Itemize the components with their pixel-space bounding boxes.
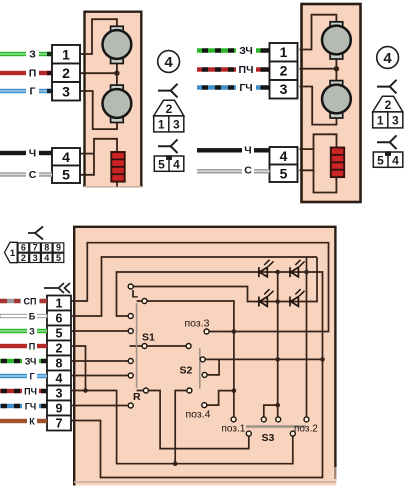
svg-text:1: 1 [280,44,288,60]
svg-text:3: 3 [280,81,288,97]
svg-text:СП: СП [24,296,37,306]
svg-text:3: 3 [56,387,63,401]
svg-text:П: П [29,68,37,80]
svg-text:3: 3 [33,253,38,263]
svg-text:П: П [29,342,35,352]
svg-text:ГЧ: ГЧ [25,402,36,412]
svg-text:R: R [133,391,141,403]
svg-text:S2: S2 [180,365,193,377]
svg-text:4: 4 [44,253,49,263]
svg-text:L: L [132,289,139,301]
svg-text:Ч: Ч [244,145,251,157]
svg-text:6: 6 [21,243,26,253]
svg-text:7: 7 [33,243,38,253]
svg-text:поз.1: поз.1 [222,424,246,435]
svg-text:2: 2 [56,342,63,356]
svg-text:S1: S1 [142,332,155,344]
svg-text:К: К [29,417,35,427]
svg-text:ГЧ: ГЧ [239,82,252,94]
svg-text:1: 1 [56,296,63,310]
svg-text:9: 9 [56,402,63,416]
svg-text:поз.4: поз.4 [186,409,211,421]
svg-text:поз.2: поз.2 [294,424,318,435]
svg-text:Г: Г [30,86,36,98]
svg-text:8: 8 [56,357,63,371]
svg-text:Г: Г [29,372,34,382]
svg-text:8: 8 [44,243,49,253]
svg-text:С: С [244,165,252,177]
svg-text:5: 5 [56,327,63,341]
svg-text:5: 5 [280,165,288,181]
svg-text:2: 2 [62,65,70,81]
svg-text:ПЧ: ПЧ [239,64,254,76]
svg-text:1: 1 [62,46,70,62]
svg-text:ЗЧ: ЗЧ [239,45,253,57]
svg-text:ПЧ: ПЧ [24,387,37,397]
svg-text:С: С [29,169,37,181]
svg-text:ЗЧ: ЗЧ [25,357,37,367]
svg-text:З: З [29,49,36,61]
svg-text:4: 4 [62,149,70,165]
svg-text:9: 9 [56,243,61,253]
svg-text:S3: S3 [262,432,275,444]
svg-text:5: 5 [62,166,70,182]
svg-text:7: 7 [56,417,63,431]
svg-text:З: З [29,327,35,337]
svg-text:2: 2 [280,63,288,79]
svg-text:Б: Б [29,312,36,322]
svg-text:3: 3 [62,83,70,99]
svg-text:1: 1 [10,248,16,259]
svg-text:2: 2 [21,253,26,263]
svg-text:4: 4 [56,372,63,386]
svg-text:5: 5 [56,253,61,263]
svg-text:Ч: Ч [29,148,36,160]
svg-text:4: 4 [280,148,288,164]
svg-text:6: 6 [56,312,63,326]
svg-text:поз.3: поз.3 [185,318,210,330]
